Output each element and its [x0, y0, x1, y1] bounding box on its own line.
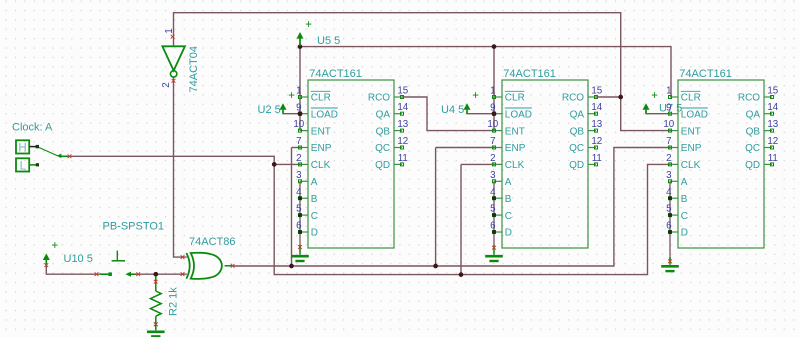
svg-text:A: A	[311, 177, 318, 188]
wire U4 power to LOAD2	[467, 111, 494, 114]
pin QC (12)	[569, 136, 602, 154]
svg-text:LOAD: LOAD	[681, 109, 708, 120]
ground chip2 A-D	[485, 245, 503, 261]
ground chip1 A-D	[291, 245, 309, 261]
resistor R2 1k	[150, 276, 161, 326]
svg-text:12: 12	[767, 136, 778, 147]
pin ENP (7)	[296, 136, 332, 154]
svg-text:13: 13	[397, 119, 408, 130]
pin B (4)	[490, 187, 512, 205]
svg-text:D: D	[505, 228, 512, 239]
svg-text:QA: QA	[570, 109, 585, 120]
switch SPDT clock A, H contact box	[16, 140, 39, 154]
power VCC arrow U2	[280, 90, 296, 113]
svg-text:+: +	[52, 240, 59, 252]
switch L contact box	[16, 158, 39, 172]
power VCC arrow U10	[43, 240, 59, 265]
pin QB (13)	[746, 119, 779, 137]
svg-text:U5 5: U5 5	[317, 35, 340, 47]
pin ENT (10)	[663, 119, 700, 137]
svg-text:D: D	[311, 228, 318, 239]
svg-text:74ACT86: 74ACT86	[189, 236, 235, 248]
junction LOAD2	[492, 111, 497, 116]
svg-text:ENP: ENP	[505, 143, 526, 154]
wire A-D tie chip2	[493, 181, 495, 247]
svg-text:RCO: RCO	[562, 93, 584, 104]
switch lever	[39, 148, 71, 159]
pin B (4)	[296, 187, 318, 205]
wire net: clock bus	[61, 156, 671, 274]
svg-text:CLK: CLK	[311, 160, 331, 171]
svg-text:10: 10	[487, 119, 498, 130]
svg-text:B: B	[681, 194, 688, 205]
svg-text:5: 5	[296, 204, 302, 215]
junction VCC/chip1	[298, 44, 303, 49]
XOR gate 74ACT86	[181, 253, 235, 279]
pin C (5)	[490, 204, 512, 222]
svg-text:14: 14	[397, 102, 408, 113]
wire inverter output to XOR input 1	[174, 78, 187, 258]
pin ENP (7)	[490, 136, 526, 154]
svg-text:CLR: CLR	[681, 93, 701, 104]
pin CLK (2)	[490, 153, 525, 171]
svg-text:6: 6	[296, 221, 302, 232]
power VCC arrow U5	[297, 19, 313, 46]
svg-text:3: 3	[296, 170, 302, 181]
wire net: RCO2 / inverter input top bus	[174, 13, 671, 131]
svg-text:74ACT161: 74ACT161	[309, 68, 362, 80]
wire node to XOR input 2	[156, 273, 187, 275]
svg-text:4: 4	[490, 187, 496, 198]
pin LOAD (9)	[490, 102, 532, 120]
pin tie dots B,C,D x=494	[492, 196, 496, 234]
pin RCO (15)	[368, 85, 409, 103]
svg-text:6: 6	[666, 221, 672, 232]
svg-text:74ACT04: 74ACT04	[188, 46, 200, 92]
junction LOAD2 top copy	[492, 111, 497, 116]
pin QA (14)	[376, 102, 409, 120]
inverter U? 74ACT04	[161, 28, 200, 92]
pin CLR (1)	[490, 86, 525, 104]
svg-text:5: 5	[666, 204, 672, 215]
pin C (5)	[666, 204, 688, 222]
pin CLK (2)	[666, 153, 701, 171]
svg-text:LOAD: LOAD	[505, 109, 532, 120]
op IC U4 74ACT161 counter	[487, 68, 602, 248]
svg-text:74ACT161: 74ACT161	[679, 68, 732, 80]
svg-text:QD: QD	[745, 160, 760, 171]
junction CLK2 tap	[459, 272, 464, 277]
junction ENP1 tap	[289, 264, 294, 269]
svg-text:ENT: ENT	[681, 126, 701, 137]
pin ENP (7)	[666, 136, 702, 154]
svg-text:15: 15	[767, 85, 778, 96]
svg-text:PB-SPSTO1: PB-SPSTO1	[103, 220, 165, 232]
svg-text:4: 4	[296, 187, 302, 198]
wire node down to R2	[155, 274, 157, 282]
svg-text:A: A	[505, 177, 512, 188]
pin ENT (10)	[293, 119, 330, 137]
svg-text:11: 11	[768, 153, 778, 164]
pin tie dots B,C,D x=670	[668, 196, 672, 234]
pin QC (12)	[745, 136, 778, 154]
pin A (3)	[490, 170, 512, 188]
junction RCO2 / top bus	[618, 95, 623, 100]
svg-text:14: 14	[591, 102, 602, 113]
pin QD (11)	[745, 153, 778, 171]
svg-text:1: 1	[666, 86, 671, 97]
svg-text:ENP: ENP	[311, 143, 332, 154]
wire push button to XOR node	[136, 273, 156, 275]
svg-text:Clock: A: Clock: A	[12, 122, 53, 134]
svg-text:CLR: CLR	[505, 93, 525, 104]
junction VCC/chip2	[492, 44, 497, 49]
svg-text:ENT: ENT	[505, 126, 525, 137]
ground under R2	[147, 322, 165, 336]
pin CLR (1)	[296, 86, 331, 104]
svg-text:U10 5: U10 5	[64, 253, 93, 265]
svg-text:U2 5: U2 5	[258, 104, 281, 116]
svg-text:RCO: RCO	[368, 93, 390, 104]
wire A-D tie chip1	[299, 181, 301, 247]
svg-text:9: 9	[666, 102, 671, 113]
svg-text:1: 1	[296, 86, 301, 97]
wire A-D tie chip3	[669, 181, 671, 261]
svg-text:+: +	[305, 19, 312, 31]
svg-text:3: 3	[666, 170, 672, 181]
power VCC arrow U4	[464, 90, 480, 113]
svg-text:10: 10	[663, 119, 674, 130]
svg-text:QD: QD	[375, 160, 390, 171]
IC body 74ACT161 #7	[678, 80, 764, 248]
push button PB-SPSTO1	[95, 251, 141, 277]
pin C (5)	[296, 204, 318, 222]
pin D (6)	[490, 221, 512, 239]
pin tie dots B,C,D x=300	[298, 196, 302, 234]
svg-text:2: 2	[161, 82, 172, 87]
svg-text:QB: QB	[376, 126, 391, 137]
pin CLR (1)	[666, 86, 701, 104]
IC body 74ACT161 #4	[502, 80, 588, 248]
pin CLK (2)	[296, 153, 331, 171]
svg-text:RCO: RCO	[738, 93, 760, 104]
wire U7 power to LOAD3	[646, 111, 670, 114]
pin A (3)	[296, 170, 318, 188]
svg-text:15: 15	[591, 85, 602, 96]
svg-text:CLR: CLR	[311, 93, 331, 104]
junction CLK1 tap	[272, 162, 277, 167]
svg-text:74ACT161: 74ACT161	[503, 68, 556, 80]
svg-text:B: B	[505, 194, 512, 205]
svg-text:L: L	[20, 161, 27, 173]
svg-text:U4 5: U4 5	[441, 104, 464, 116]
pin QC (12)	[375, 136, 408, 154]
svg-text:A: A	[681, 177, 688, 188]
pin D (6)	[296, 221, 318, 239]
svg-text:7: 7	[666, 136, 671, 147]
op IC U2 74ACT161 counter	[293, 68, 408, 248]
pin D (6)	[666, 221, 688, 239]
svg-text:QB: QB	[570, 126, 585, 137]
svg-text:2: 2	[666, 153, 671, 164]
svg-text:10: 10	[293, 119, 304, 130]
svg-text:1: 1	[164, 28, 175, 33]
svg-text:11: 11	[398, 153, 408, 164]
svg-text:12: 12	[397, 136, 408, 147]
ground chip3 A-D	[661, 257, 679, 271]
svg-text:D: D	[681, 228, 688, 239]
svg-text:LOAD: LOAD	[311, 109, 338, 120]
junction LOAD1 top copy	[298, 111, 303, 116]
svg-text:15: 15	[397, 85, 408, 96]
svg-text:7: 7	[296, 136, 301, 147]
pin QB (13)	[570, 119, 603, 137]
svg-text:ENT: ENT	[311, 126, 331, 137]
pin QD (11)	[569, 153, 602, 171]
svg-text:14: 14	[767, 102, 778, 113]
svg-text:QD: QD	[569, 160, 584, 171]
svg-text:CLK: CLK	[681, 160, 701, 171]
svg-text:+: +	[288, 90, 295, 102]
wire net: XOR output to ENP pins	[233, 148, 670, 267]
svg-text:ENP: ENP	[681, 143, 702, 154]
pin RCO (15)	[738, 85, 779, 103]
svg-text:+: +	[651, 90, 658, 102]
op IC U7 74ACT161 counter	[663, 68, 778, 248]
svg-text:13: 13	[591, 119, 602, 130]
svg-text:6: 6	[490, 221, 496, 232]
wire U2 power to LOAD1	[283, 111, 300, 114]
pin LOAD (9)	[296, 102, 338, 120]
wire U10 power to push button	[46, 265, 100, 274]
pin RCO (15)	[562, 85, 603, 103]
junction LOAD1	[298, 111, 303, 116]
svg-text:+: +	[472, 90, 479, 102]
svg-text:R2 1k: R2 1k	[168, 287, 180, 316]
svg-text:QB: QB	[746, 126, 761, 137]
svg-text:CLK: CLK	[505, 160, 525, 171]
svg-text:11: 11	[592, 153, 602, 164]
pin QA (14)	[746, 102, 779, 120]
junction button/R2/XOR	[153, 272, 158, 277]
svg-text:QA: QA	[376, 109, 391, 120]
wire net: VCC rail U5	[300, 38, 671, 131]
svg-text:H: H	[18, 143, 26, 155]
power VCC arrow U7	[643, 90, 659, 113]
svg-text:QC: QC	[569, 143, 584, 154]
pin QD (11)	[375, 153, 408, 171]
svg-text:C: C	[505, 211, 512, 222]
svg-text:QC: QC	[745, 143, 760, 154]
wire RCO1 to ENT2	[402, 97, 494, 131]
pin A (3)	[666, 170, 688, 188]
svg-text:12: 12	[591, 136, 602, 147]
svg-text:2: 2	[296, 153, 301, 164]
IC body 74ACT161 #2	[308, 80, 394, 248]
pin B (4)	[666, 187, 688, 205]
svg-text:1: 1	[490, 86, 495, 97]
pin ENT (10)	[487, 119, 524, 137]
svg-text:QA: QA	[746, 109, 761, 120]
pin LOAD (9)	[666, 102, 708, 120]
junction ENP2 tap	[433, 264, 438, 269]
svg-text:3: 3	[490, 170, 496, 181]
pin QA (14)	[570, 102, 603, 120]
svg-text:QC: QC	[375, 143, 390, 154]
svg-text:13: 13	[767, 119, 778, 130]
svg-text:4: 4	[666, 187, 672, 198]
pin QB (13)	[376, 119, 409, 137]
svg-text:C: C	[681, 211, 688, 222]
svg-text:B: B	[311, 194, 318, 205]
svg-text:5: 5	[490, 204, 496, 215]
svg-text:7: 7	[490, 136, 495, 147]
svg-text:C: C	[311, 211, 318, 222]
svg-text:2: 2	[490, 153, 495, 164]
